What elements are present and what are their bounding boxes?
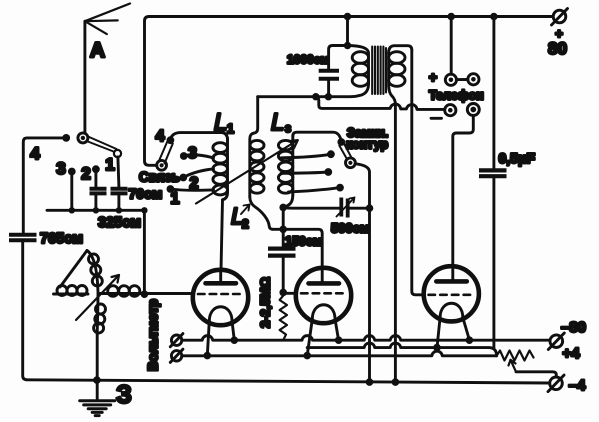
tube V1 anode (206, 270, 237, 284)
svg-text:Вольтметр: Вольтметр (146, 299, 161, 371)
wire S1 contact2 down to capacitor 325cm (94, 169, 97, 187)
node junction 1000cm bottom on rail (325, 93, 332, 100)
node junction dot on top rail at telephone feed (447, 13, 455, 21)
resistor 2-2,5 MOm grid leak (280, 296, 287, 341)
label L2 with pointer arrow (231, 203, 250, 231)
svg-text:4: 4 (30, 144, 40, 163)
wire 765cm capacitor down to bottom bus (23, 240, 27, 380)
coupling adjustment arrow across coils (196, 140, 298, 203)
tube V3 filament (440, 303, 463, 317)
svg-text:–4: –4 (569, 377, 586, 394)
ground (80, 401, 115, 416)
switch S3 Zamkn kontur pivot (346, 158, 356, 168)
tube V2 anode (309, 268, 340, 283)
rheostat filament (497, 351, 534, 361)
telephone posts (445, 74, 480, 116)
wire variometer bottom to ground (96, 333, 99, 399)
wire S1 contact1 (arm tip) down to capacitor 70cm (118, 157, 119, 187)
svg-text:150см: 150см (285, 235, 322, 249)
svg-text:1: 1 (105, 155, 114, 174)
wire top +80 rail from x=144.5 to terminal (145, 17, 554, 166)
capacitor 500cm variable (337, 198, 355, 218)
wire S2 contact3 to L1 tap (184, 155, 214, 158)
node junction dot on top rail at 0,5uF feed (490, 13, 498, 21)
switch S2 Svyaz pivot (157, 160, 167, 170)
node dots on capacitor bus (69, 207, 148, 213)
svg-text:0,5μF: 0,5μF (499, 150, 536, 166)
label L3 (271, 109, 291, 136)
tube V2 filament (312, 305, 335, 319)
wire telephone minus from rail junction with hops (316, 97, 445, 110)
antenna A (85, 4, 130, 138)
node V2 left leg on bus B (303, 352, 311, 360)
svg-text:2-2,5МΩ: 2-2,5МΩ (258, 277, 273, 328)
switch S1 antenna selector pivot (78, 133, 88, 143)
node S3 top contact (337, 138, 345, 146)
tube V1 envelope (193, 270, 248, 325)
svg-text:+: + (429, 69, 437, 85)
wire bus down to variometer junction (143, 210, 146, 294)
node S2 contact 2 (179, 174, 187, 182)
wire S2 contact1 to L1 tap (170, 189, 213, 190)
node S3 contact c (336, 184, 344, 192)
node S3 contact b (324, 168, 332, 176)
svg-text:3: 3 (56, 159, 65, 178)
wire S3 contact a to L3 tap (281, 154, 331, 158)
svg-text:L: L (271, 109, 284, 136)
svg-text:765см: 765см (40, 231, 83, 247)
svg-text:500см: 500см (331, 221, 370, 236)
wire L2 top to transformer bottom rail (254, 97, 258, 134)
svg-text:1: 1 (171, 191, 180, 208)
tube V3 grid (429, 293, 475, 296)
wire variometer junction to tube1 grid (144, 292, 193, 295)
node S1 contact 2 (92, 165, 100, 173)
node S2 contact 1 (167, 185, 175, 193)
node junction L3 bottom with 500cm wire (279, 204, 287, 212)
tube V2 filament legs (307, 319, 338, 356)
wire S3 contact c to L3 tap (289, 188, 341, 192)
svg-text:+4: +4 (562, 345, 580, 362)
node S3 contact a (327, 150, 335, 158)
wire rheostat wiper to -4 terminal (516, 372, 556, 377)
svg-text:325см: 325см (98, 215, 141, 231)
svg-text:контур: контур (346, 138, 388, 152)
svg-text:A: A (90, 39, 105, 62)
tube V3 anode (436, 266, 467, 281)
wire telephone to tube3 anode (453, 116, 474, 267)
coil L2 (250, 133, 273, 229)
svg-text:4: 4 (156, 128, 165, 145)
node tube2 grid junction (279, 289, 287, 297)
coil L3 (278, 136, 292, 248)
wire junction to 1000cm capacitor (329, 46, 348, 70)
tube V3 filament legs (437, 318, 469, 348)
tube V1 filament (209, 307, 232, 321)
wire L3 top to S3 contact (293, 132, 342, 142)
tube V2 envelope (296, 268, 351, 323)
svg-text:–80: –80 (561, 319, 586, 336)
node V1 right leg on bus A (231, 336, 239, 344)
node S1 contact 4 (62, 134, 70, 142)
svg-text:2: 2 (81, 164, 90, 183)
wire 150cm bottom to tube2 grid node (282, 256, 285, 293)
wire secondary bottom down to bottom bus (394, 105, 397, 383)
wire S2 contact4 to L1 top (170, 133, 227, 141)
voltmeter terminals (170, 334, 183, 363)
capacitor 765cm (9, 235, 37, 240)
wire bus B filament minus (182, 351, 497, 356)
label Zamkn kontur (346, 126, 388, 152)
wire grid node to tube2 (283, 292, 296, 295)
capacitor 325cm (90, 189, 107, 211)
capacitor 1000cm (319, 71, 339, 79)
svg-text:1000см: 1000см (287, 53, 329, 67)
wire 500cm right plate to S3 line (348, 207, 370, 210)
transformer T1 secondary (389, 46, 412, 105)
wire 0,5uF bottom down to bus A2 (492, 176, 495, 347)
wire S1 contact3 down to capacitor bus (70, 172, 73, 211)
wire bottom bus C (27, 380, 550, 383)
wire bus A2 tube3 filament to rheostat (307, 343, 496, 356)
label telephone minus (431, 117, 442, 120)
svg-text:70см: 70см (129, 186, 163, 202)
svg-text:Связь: Связь (139, 170, 180, 185)
wire 1000cm bottom lead (325, 79, 329, 97)
svg-text:2: 2 (242, 217, 249, 231)
transformer T1 primary (258, 46, 369, 97)
svg-text:80: 80 (548, 39, 567, 58)
wire L1 bottom to tube1 anode (221, 200, 223, 270)
svg-text:Телефон: Телефон (429, 89, 484, 103)
terminal -4 (548, 375, 564, 392)
wire antenna capacitor bus (47, 209, 144, 212)
tube V1 grid (198, 293, 244, 296)
node V1 left leg on bus B (204, 352, 212, 360)
wire top rail down through 0,5uF (492, 17, 495, 169)
svg-text:L: L (214, 109, 227, 136)
label S1 contact numbers (30, 144, 114, 183)
node dot S3 line at bottom bus (366, 378, 374, 386)
wire bus A filament plus (182, 336, 550, 341)
node S1 contact 3 (68, 168, 76, 176)
node transformer top junction (344, 42, 351, 49)
label L1 (214, 109, 234, 136)
switch S3 arm (339, 144, 352, 159)
node variometer to grid junction (141, 290, 149, 298)
variometer adjustment arrow (76, 275, 119, 320)
terminal -80 +4 (548, 333, 564, 350)
wire L3 bottom to 500cm capacitor (283, 206, 339, 210)
node S2 contact 3 (180, 152, 188, 160)
node secondary return on bottom bus (392, 378, 400, 386)
tube V1 filament legs (207, 321, 234, 356)
node junction telephone tee on rail (312, 93, 319, 100)
wire S2 contact2 to L1 tap (183, 169, 213, 178)
node V3 left leg on bus A2 (433, 344, 441, 352)
tube V3 envelope (424, 266, 479, 321)
node dot on bottom bus at ground lead (93, 376, 101, 384)
wire top rail down to telephone plus (450, 17, 453, 75)
svg-text:З: З (116, 381, 132, 409)
wire secondary top down to tube3 grid (412, 50, 424, 295)
wire top rail down to transformer (346, 17, 349, 46)
terminal +80 (552, 9, 568, 26)
wire S1 contact4 to 765cm capacitor (23, 138, 66, 233)
switch S1 arm (87, 137, 122, 158)
svg-text:з: з (285, 121, 291, 135)
capacitor 0,5uF (479, 170, 507, 176)
capacitor 150cm (268, 249, 296, 256)
wire L2 bottom / tube2 anode rail (273, 229, 322, 268)
capacitor 70cm (111, 189, 128, 211)
switch S2 arm (159, 142, 173, 164)
node V3 right leg on bus A (466, 336, 474, 344)
rheostat wiper arrow (509, 360, 517, 372)
node junction 150cm top on anode rail (279, 226, 287, 234)
node dot S3 line at 500cm (366, 204, 374, 212)
wire S3 contact b to L3 tap (281, 172, 328, 173)
coil L1 (213, 138, 228, 200)
label S2 contact numbers (156, 128, 199, 208)
node V2 right leg on bus A (335, 336, 343, 344)
tube V2 grid (301, 292, 347, 295)
node junction dot on top rail at transformer (344, 13, 352, 21)
wire S3 pivot down to bottom bus (355, 164, 369, 382)
node S2 contact 4 (167, 136, 175, 144)
variometer coupling coil (54, 251, 145, 334)
svg-text:1: 1 (227, 122, 234, 136)
transformer T1 core (372, 47, 386, 95)
label +80 (548, 26, 567, 58)
